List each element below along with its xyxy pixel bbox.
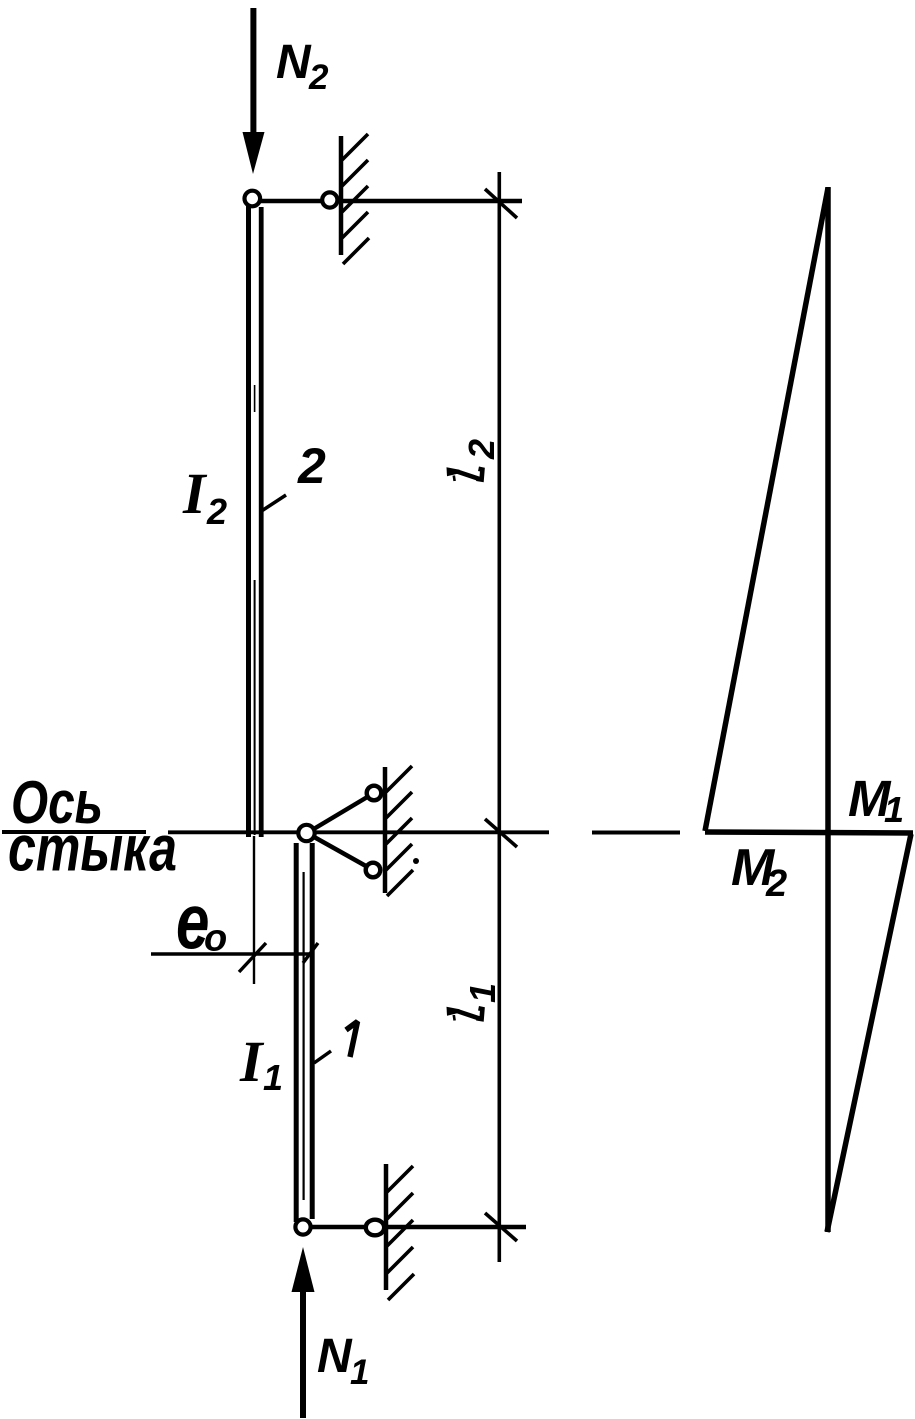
svg-text:N: N (317, 1330, 353, 1383)
e0 tick right (303, 943, 318, 963)
column 2 web scan line b (254, 385, 256, 412)
e0 extension line (253, 836, 255, 984)
label I1 (239, 1029, 283, 1098)
label e0 (176, 877, 227, 964)
svg-text:2: 2 (206, 491, 227, 532)
label M1 (848, 770, 904, 830)
top support wall (339, 136, 344, 255)
label N1 (317, 1330, 369, 1392)
force N2 arrow (243, 8, 265, 174)
joint axis line under Ось (2, 830, 146, 834)
svg-text:I: I (182, 461, 208, 526)
moment diagram vertical axis (825, 187, 831, 1232)
bottom column end circle (295, 1219, 310, 1234)
top support link bar (252, 199, 522, 204)
top support pin circle (245, 191, 261, 207)
svg-text:N: N (276, 36, 312, 89)
e0 dimension line (151, 952, 314, 955)
svg-text:1: 1 (350, 1353, 369, 1392)
leader line to column 2 (260, 495, 286, 512)
joint axis dash (592, 831, 680, 835)
svg-text:I: I (239, 1029, 265, 1094)
column 1 (lower), left flange (294, 843, 299, 1222)
column 2 (upper), left flange (246, 206, 251, 837)
ink speck near mid support (413, 858, 419, 864)
bottom hatching (387, 1166, 414, 1300)
dimension tick bottom (485, 1213, 517, 1241)
leader line to column 1 (314, 1051, 331, 1063)
svg-text:стыка: стыка (8, 812, 177, 885)
dimension tick top (485, 189, 517, 218)
moment diagram lower diagonal (M1 slope) (827, 834, 911, 1232)
label I2 (182, 461, 227, 532)
column 2 web scan line (254, 580, 256, 835)
svg-text:2: 2 (308, 58, 329, 97)
label 1 (346, 1022, 358, 1058)
joint axis main line (168, 830, 549, 834)
svg-text:2: 2 (461, 439, 502, 460)
mid support hatching (386, 766, 413, 896)
mid support bar upper (307, 793, 374, 833)
moment diagram upper diagonal (M2 slope) (705, 188, 828, 831)
svg-text:1: 1 (263, 1057, 283, 1098)
force N1 arrow (292, 1247, 315, 1418)
svg-text:1: 1 (884, 789, 904, 830)
bottom support link bar (303, 1225, 526, 1230)
bottom roller circle (366, 1220, 384, 1236)
mid support upper wall circle (367, 786, 382, 801)
label M2 (731, 839, 787, 905)
dimension tick middle (485, 819, 517, 847)
svg-text:2: 2 (297, 438, 326, 494)
column 1 (lower), right flange (310, 843, 315, 1219)
mid support bar lower (307, 833, 373, 870)
label N2 (276, 36, 329, 97)
label l1 (rotated script ell) (447, 1007, 483, 1021)
bottom wall (384, 1164, 389, 1290)
svg-text:o: o (204, 918, 227, 960)
mid support pin circle (joint) (298, 825, 314, 841)
column 1 web scan line (303, 872, 305, 1200)
mid support lower wall circle (366, 863, 381, 878)
svg-text:1: 1 (462, 983, 503, 1003)
mid support wall (383, 767, 388, 893)
svg-text:2: 2 (765, 863, 787, 905)
top support hatching (342, 134, 369, 264)
moment diagram base line (705, 832, 913, 833)
label l2 subscript 2 (rotated) (461, 439, 502, 460)
column 2 (upper), right flange (259, 207, 264, 837)
e0 tick left (239, 943, 266, 972)
label l1 subscript 1 (rotated) (462, 983, 503, 1003)
label l2 (rotated script ell) (447, 467, 483, 481)
top support roller circle (322, 192, 337, 207)
dimension line (l) vertical (497, 172, 501, 1262)
